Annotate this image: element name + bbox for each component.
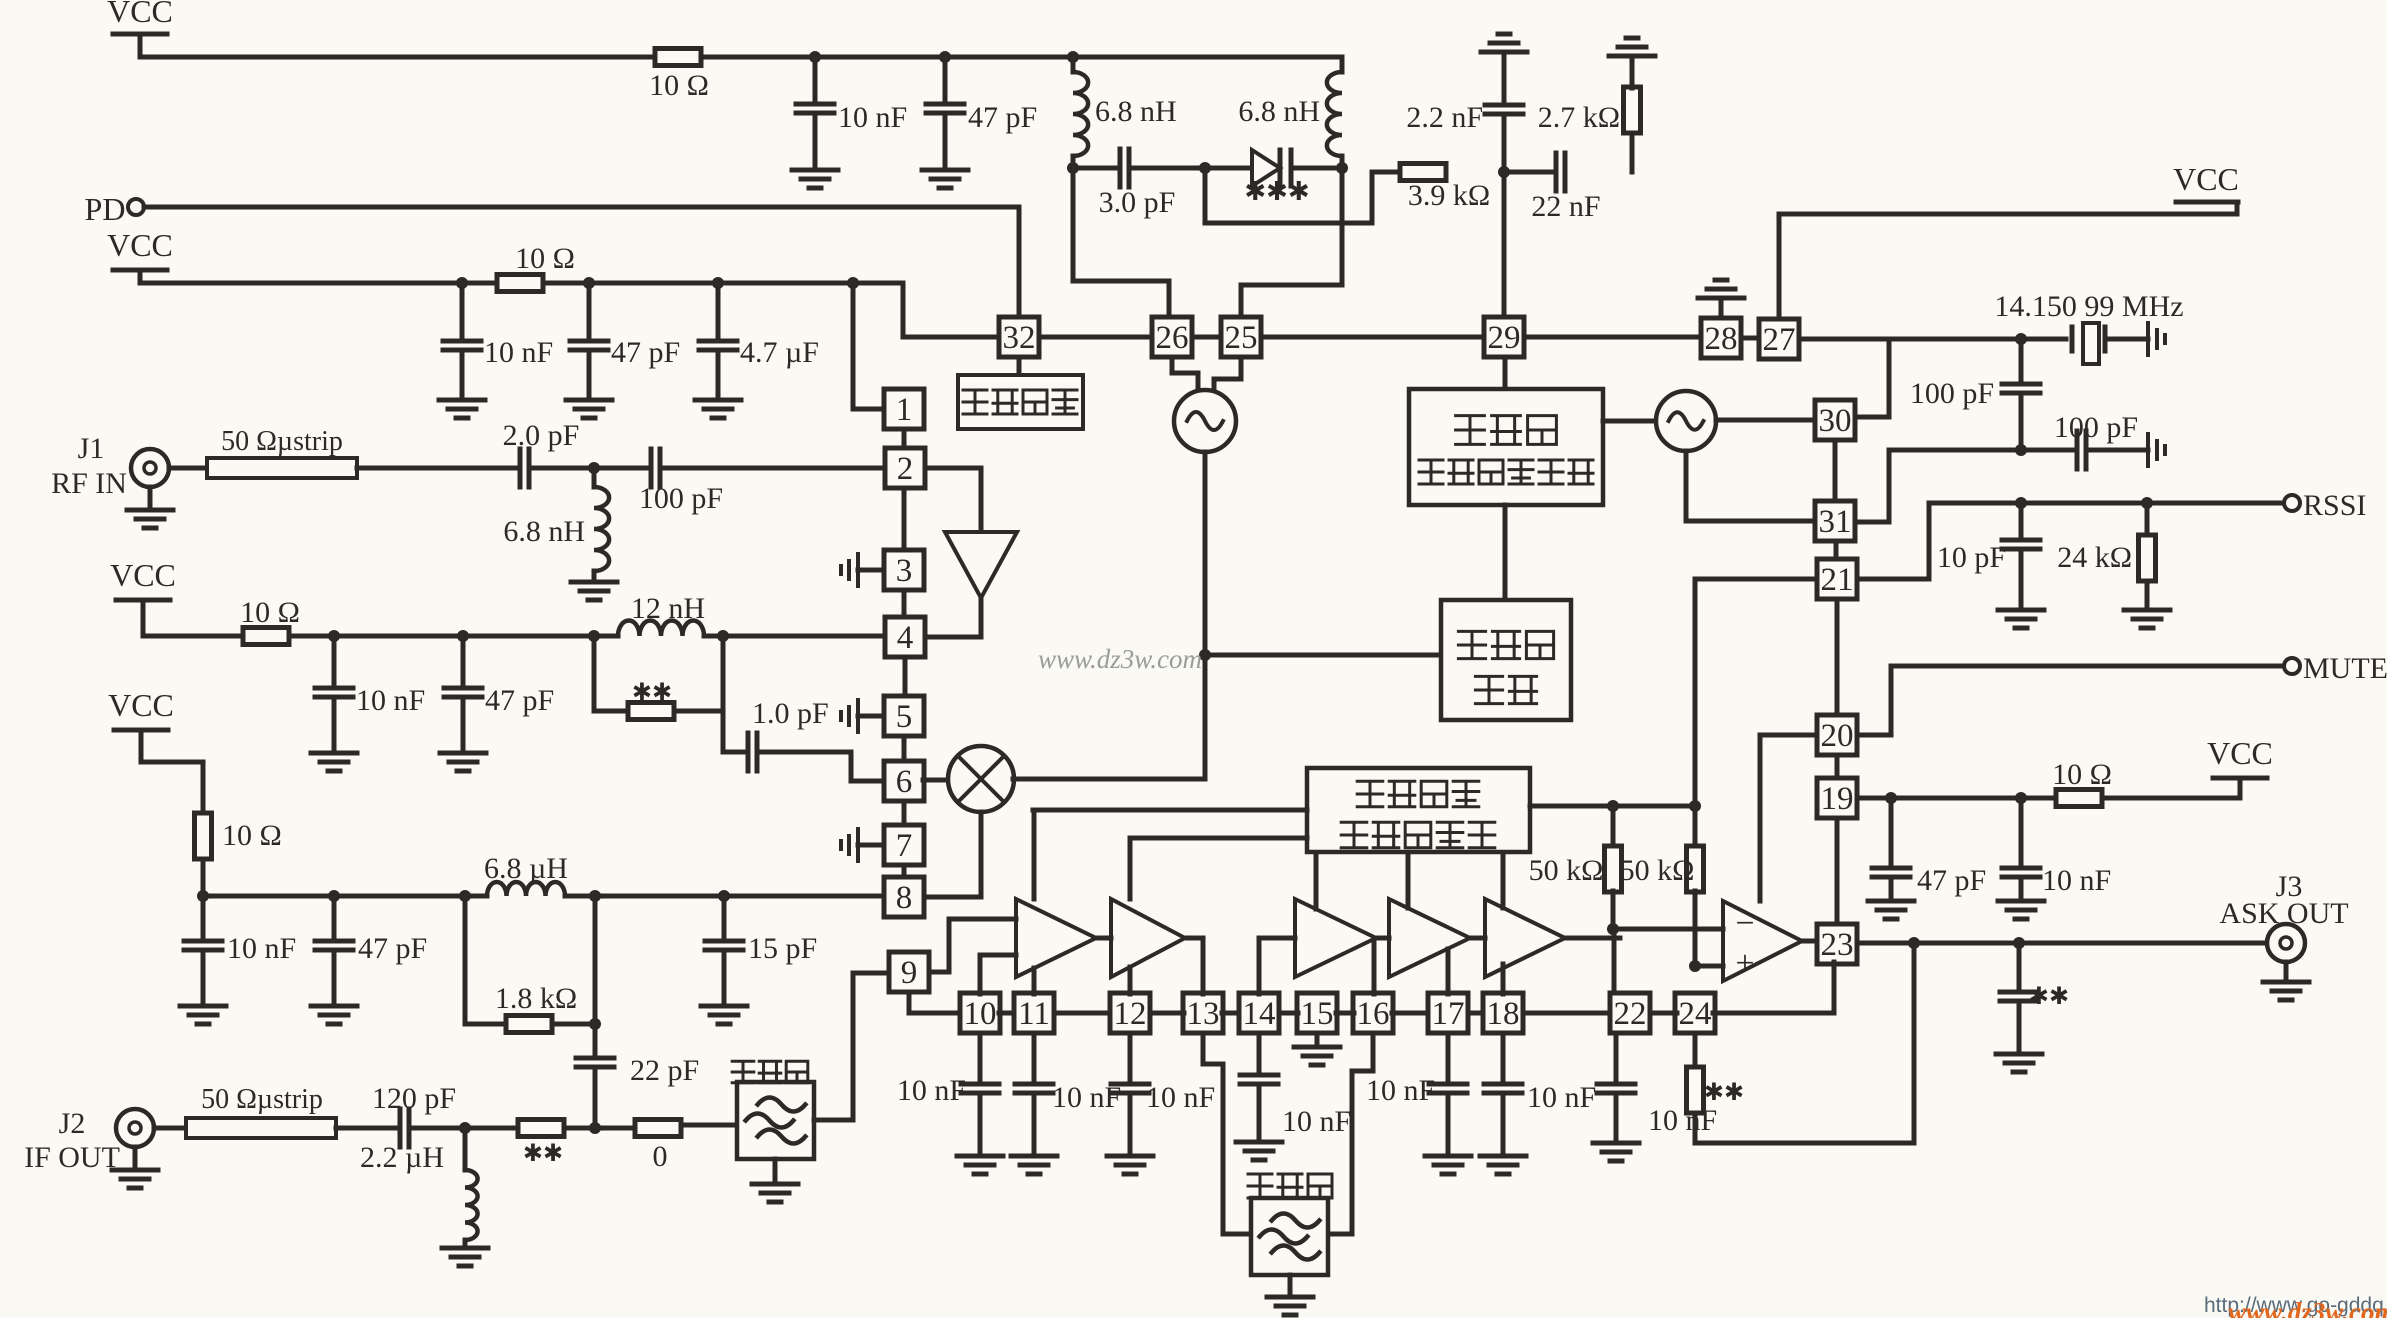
svg-text:47 pF: 47 pF: [358, 932, 427, 965]
svg-text:1.0 pF: 1.0 pF: [752, 697, 829, 730]
svg-text:J2: J2: [59, 1107, 86, 1140]
svg-text:3.9 kΩ: 3.9 kΩ: [1408, 179, 1490, 212]
svg-text:4.7 µF: 4.7 µF: [740, 336, 819, 369]
svg-text:6.8 nH: 6.8 nH: [1095, 95, 1177, 128]
svg-text:26: 26: [1156, 320, 1189, 356]
svg-text:47 pF: 47 pF: [611, 336, 680, 369]
svg-text:2.0 pF: 2.0 pF: [503, 419, 580, 452]
svg-text:VCC: VCC: [107, 227, 173, 263]
svg-text:10 Ω: 10 Ω: [515, 242, 575, 275]
svg-text:9: 9: [901, 955, 918, 991]
svg-text:10 nF: 10 nF: [1052, 1081, 1121, 1114]
svg-text:4: 4: [897, 620, 914, 656]
svg-text:2: 2: [897, 451, 914, 487]
svg-text:16: 16: [1357, 996, 1390, 1032]
svg-text:19: 19: [1821, 781, 1854, 817]
svg-text:✱✱: ✱✱: [1704, 1080, 1744, 1106]
svg-text:100 pF: 100 pF: [2054, 411, 2138, 444]
svg-text:100 pF: 100 pF: [639, 482, 723, 515]
svg-text:✱✱✱: ✱✱✱: [1244, 177, 1309, 206]
svg-text:VCC: VCC: [108, 687, 174, 723]
svg-text:10 nF: 10 nF: [838, 101, 907, 134]
svg-text:5: 5: [896, 699, 913, 735]
svg-text:15 pF: 15 pF: [748, 932, 817, 965]
svg-text:30: 30: [1819, 403, 1852, 439]
svg-text:14: 14: [1243, 996, 1276, 1032]
svg-text:6.8 nH: 6.8 nH: [1238, 95, 1320, 128]
svg-text:10 Ω: 10 Ω: [222, 819, 282, 852]
svg-text:10 pF: 10 pF: [1937, 541, 2006, 574]
svg-text:VCC: VCC: [2173, 161, 2239, 197]
svg-text:1.8 kΩ: 1.8 kΩ: [495, 982, 577, 1015]
svg-text:50 kΩ: 50 kΩ: [1529, 854, 1604, 887]
svg-text:www.dz3w.com: www.dz3w.com: [2228, 1297, 2387, 1318]
svg-text:PD: PD: [85, 191, 126, 227]
svg-text:22 nF: 22 nF: [1531, 190, 1600, 223]
svg-text:2.2 nF: 2.2 nF: [1406, 101, 1483, 134]
svg-text:10 Ω: 10 Ω: [240, 596, 300, 629]
svg-text:21: 21: [1821, 562, 1854, 598]
svg-text:13: 13: [1187, 996, 1220, 1032]
svg-text:VCC: VCC: [2207, 735, 2273, 771]
svg-text:10 nF: 10 nF: [227, 932, 296, 965]
svg-text:12: 12: [1114, 996, 1147, 1032]
svg-text:50 Ωµstrip: 50 Ωµstrip: [221, 426, 343, 457]
svg-text:2.2 µH: 2.2 µH: [360, 1141, 444, 1174]
svg-text:47 pF: 47 pF: [968, 101, 1037, 134]
svg-text:24: 24: [1679, 996, 1712, 1032]
svg-text:47 pF: 47 pF: [485, 684, 554, 717]
svg-text:RSSI: RSSI: [2303, 489, 2366, 522]
svg-text:10 nF: 10 nF: [897, 1074, 966, 1107]
svg-text:+: +: [1735, 945, 1754, 982]
svg-text:6: 6: [896, 764, 913, 800]
svg-text:MUTE: MUTE: [2303, 652, 2387, 685]
svg-text:20: 20: [1821, 718, 1854, 754]
svg-text:12 nH: 12 nH: [631, 592, 705, 625]
svg-text:25: 25: [1225, 320, 1258, 356]
svg-text:17: 17: [1432, 996, 1465, 1032]
svg-text:6.8 µH: 6.8 µH: [484, 852, 568, 885]
svg-text:1: 1: [896, 392, 913, 428]
svg-text:www.dz3w.com: www.dz3w.com: [1038, 644, 1202, 674]
svg-text:50 Ωµstrip: 50 Ωµstrip: [201, 1084, 323, 1115]
svg-text:3: 3: [896, 553, 913, 589]
svg-text:32: 32: [1003, 320, 1036, 356]
svg-text:10 nF: 10 nF: [484, 336, 553, 369]
svg-text:J1: J1: [78, 432, 105, 465]
svg-text:100 pF: 100 pF: [1910, 377, 1994, 410]
svg-text:22 pF: 22 pF: [630, 1054, 699, 1087]
svg-text:10 nF: 10 nF: [1527, 1081, 1596, 1114]
svg-text:15: 15: [1301, 996, 1334, 1032]
svg-text:23: 23: [1821, 927, 1854, 963]
svg-text:18: 18: [1487, 996, 1520, 1032]
svg-text:47 pF: 47 pF: [1917, 864, 1986, 897]
svg-text:✱✱: ✱✱: [2029, 984, 2069, 1010]
svg-text:120 pF: 120 pF: [372, 1082, 456, 1115]
svg-text:27: 27: [1763, 322, 1796, 358]
svg-text:10: 10: [964, 996, 997, 1032]
svg-text:✱✱: ✱✱: [632, 680, 672, 706]
svg-text:8: 8: [896, 880, 913, 916]
svg-text:10 nF: 10 nF: [1146, 1081, 1215, 1114]
svg-text:10 nF: 10 nF: [1282, 1105, 1351, 1138]
svg-text:10 nF: 10 nF: [1366, 1074, 1435, 1107]
svg-text:24 kΩ: 24 kΩ: [2057, 541, 2132, 574]
svg-text:VCC: VCC: [107, 0, 173, 29]
svg-text:0: 0: [653, 1140, 668, 1173]
svg-text:7: 7: [896, 828, 913, 864]
svg-text:IF OUT: IF OUT: [24, 1141, 120, 1174]
svg-text:29: 29: [1488, 320, 1521, 356]
svg-text:10 nF: 10 nF: [1648, 1104, 1717, 1137]
svg-text:10 nF: 10 nF: [356, 684, 425, 717]
svg-text:10 Ω: 10 Ω: [2052, 758, 2112, 791]
svg-text:RF IN: RF IN: [51, 467, 127, 500]
svg-text:✱✱: ✱✱: [523, 1141, 563, 1167]
svg-text:10 Ω: 10 Ω: [649, 69, 709, 102]
svg-text:10 nF: 10 nF: [2042, 864, 2111, 897]
svg-text:−: −: [1735, 905, 1754, 942]
svg-text:14.150 99 MHz: 14.150 99 MHz: [1994, 290, 2183, 323]
svg-text:31: 31: [1819, 504, 1852, 540]
svg-text:28: 28: [1705, 321, 1738, 357]
svg-text:22: 22: [1614, 996, 1647, 1032]
svg-text:VCC: VCC: [110, 557, 176, 593]
svg-text:2.7 kΩ: 2.7 kΩ: [1538, 101, 1620, 134]
svg-text:11: 11: [1018, 996, 1050, 1032]
svg-text:3.0 pF: 3.0 pF: [1099, 186, 1176, 219]
svg-text:6.8 nH: 6.8 nH: [503, 515, 585, 548]
svg-text:50 kΩ: 50 kΩ: [1620, 854, 1695, 887]
